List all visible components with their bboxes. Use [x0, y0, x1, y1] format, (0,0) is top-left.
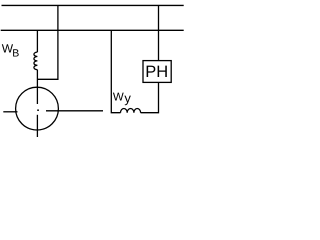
wire vertical axis below motor center: [36, 115, 38, 137]
wire second bus rail 2: [1, 29, 184, 31]
wire left brush arm of motor: [3, 111, 17, 113]
box PH regulator: [143, 61, 171, 83]
motor M1 circle armature: [16, 87, 59, 130]
svg-text:y: y: [124, 91, 131, 106]
svg-text:PH: PH: [145, 63, 168, 81]
wire vertical from rail1 down with jog to coil bottom: [37, 5, 58, 79]
wire top bus rail 1: [2, 4, 184, 6]
svg-text:W: W: [113, 92, 124, 104]
svg-text:B: B: [12, 48, 19, 60]
wire middle vertical from rail2 down: [111, 30, 120, 112]
inductor Wy armature winding coil: [121, 108, 141, 112]
wire coil to right vertical: [141, 82, 159, 112]
wire vertical from rail2 to top of field coil: [36, 30, 38, 52]
wire coil bottom down into motor: [36, 70, 38, 104]
node center dot of motor crosshair: [37, 109, 39, 111]
wire right brush arm of motor to stub: [46, 110, 103, 112]
inductor WB field winding coil: [34, 52, 38, 70]
wire right vertical from rail1 to PH box: [158, 5, 160, 60]
